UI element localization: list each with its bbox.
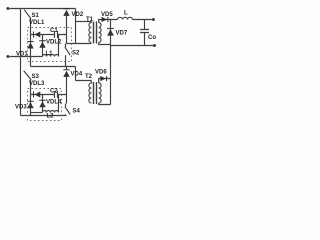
wire bottom rail	[21, 115, 67, 117]
wire L2 line left	[31, 112, 43, 114]
transformer T2 core	[94, 82, 97, 104]
wire T2 secondary bottom lead	[99, 103, 111, 105]
wire VDL2a branch vertical	[42, 35, 44, 57]
wire to output + terminal	[133, 19, 152, 21]
switch S4	[65, 104, 70, 116]
diode VD6	[100, 76, 107, 81]
diode VD7	[107, 28, 114, 36]
wire snubber2 top row	[31, 94, 67, 96]
dashed box snubber 2	[28, 89, 62, 121]
wire snubber1 top row	[31, 34, 67, 36]
diode VD1	[27, 41, 33, 49]
svg-text:VDL2: VDL2	[46, 40, 62, 46]
wire primary2-left vertical and top lead	[76, 67, 92, 81]
svg-text:C1: C1	[50, 28, 58, 34]
diode VD3	[27, 101, 33, 109]
svg-text:VD5: VD5	[101, 12, 113, 18]
switch S2	[65, 44, 70, 67]
dashed box snubber 1	[28, 28, 72, 62]
wire S1 to snubber node	[30, 19, 32, 35]
transformer T2 secondary winding	[99, 83, 101, 103]
input terminal top-left	[6, 7, 9, 10]
diode VD4	[63, 69, 69, 77]
wire primary-left vertical	[75, 9, 77, 44]
wire freewheel vertical	[110, 20, 112, 105]
svg-text:VD4: VD4	[71, 72, 83, 78]
svg-text:VD1: VD1	[16, 52, 28, 58]
wire T1 primary bottom lead	[67, 43, 92, 45]
diode VDL2 (left-pointing, in box 1)	[33, 32, 40, 38]
svg-text:L2: L2	[47, 114, 55, 120]
diode VDL4 (left-pointing, in box 2)	[33, 92, 40, 98]
svg-text:T1: T1	[86, 17, 94, 23]
wire input bottom / L1 line	[10, 56, 43, 58]
switch S1 blade	[24, 10, 31, 19]
wire mid rail	[31, 66, 76, 68]
svg-text:S1: S1	[32, 13, 40, 19]
svg-text:VD7: VD7	[116, 31, 128, 37]
svg-text:C2: C2	[50, 89, 58, 95]
transformer T1 primary winding	[89, 22, 91, 43]
inductor L	[118, 17, 133, 19]
svg-text:L: L	[124, 11, 128, 17]
transformer T1 core	[94, 22, 97, 44]
wire VD4 branch	[66, 67, 68, 104]
inductor L1	[43, 55, 59, 57]
transformer T2 primary winding	[89, 81, 91, 104]
svg-text:Co: Co	[148, 35, 156, 41]
wire output bottom rail	[111, 45, 154, 47]
diode VD2	[63, 8, 69, 16]
svg-text:VDL4: VDL4	[46, 100, 62, 106]
diode VDL4a (upward, in box 2)	[39, 100, 46, 108]
transformer T1 secondary winding	[99, 23, 101, 43]
wire VD3 branch vertical	[30, 79, 32, 116]
capacitor Co	[140, 20, 149, 46]
wire C2 to L2 vertical	[58, 95, 60, 113]
output terminal bottom-right	[153, 44, 156, 47]
svg-text:S3: S3	[32, 74, 40, 80]
svg-text:L1: L1	[46, 51, 54, 57]
svg-text:VD2: VD2	[72, 12, 84, 18]
wire VD1 branch vertical	[30, 35, 32, 67]
wire C1 to L1 vertical	[58, 35, 60, 57]
wire T2 secondary top lead	[99, 79, 111, 84]
svg-text:T2: T2	[85, 74, 93, 80]
switch S3 blade	[24, 71, 31, 80]
wire T1 secondary bottom lead	[99, 43, 111, 45]
svg-text:VD6: VD6	[95, 70, 107, 76]
wire VDL4a branch vertical	[42, 95, 44, 113]
input terminal mid-left	[6, 55, 9, 58]
wire T1 primary top lead	[76, 21, 92, 23]
capacitor C1	[55, 31, 58, 38]
svg-text:VD3: VD3	[15, 105, 27, 111]
diode VDL2a (upward, in box 1)	[39, 40, 46, 48]
wire left bus vertical	[20, 9, 22, 116]
wire T1 secondary top lead	[99, 20, 118, 23]
svg-text:VDL1: VDL1	[29, 20, 45, 26]
wire top rail	[10, 8, 76, 10]
svg-text:S4: S4	[73, 109, 81, 115]
svg-text:S2: S2	[72, 51, 80, 57]
capacitor C2	[55, 91, 58, 98]
inductor L2	[43, 111, 59, 113]
wire VD2 to node	[66, 16, 68, 44]
output terminal top-right	[152, 18, 155, 21]
svg-text:VDL3: VDL3	[29, 81, 45, 87]
diode VD5	[102, 17, 109, 22]
